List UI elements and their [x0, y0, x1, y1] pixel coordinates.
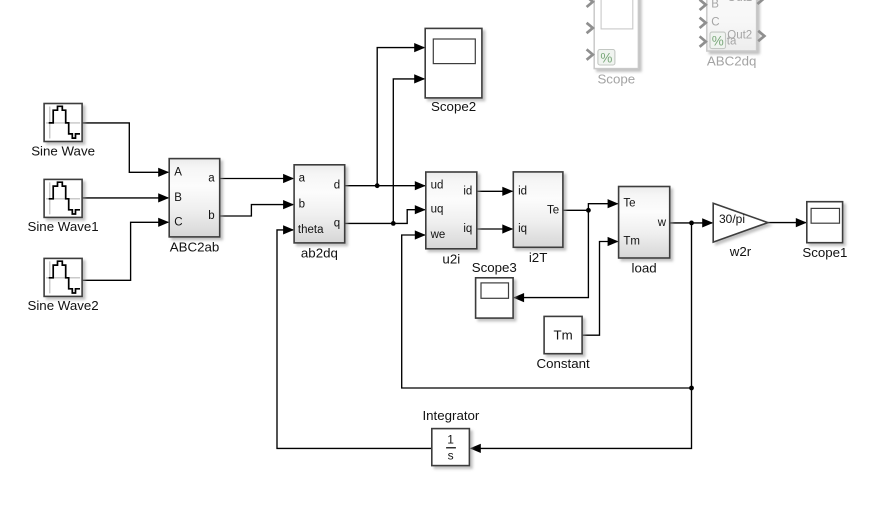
svg-text:u2i: u2i [442, 251, 460, 266]
svg-text:Constant: Constant [536, 356, 590, 371]
svg-text:30/pi: 30/pi [719, 212, 745, 226]
svg-text:w2r: w2r [729, 244, 752, 259]
svg-text:Tm: Tm [623, 236, 640, 248]
svg-text:Te: Te [623, 198, 635, 210]
svg-text:d: d [334, 180, 340, 192]
svg-text:%: % [712, 33, 724, 48]
svg-text:Sine Wave: Sine Wave [31, 144, 95, 159]
svg-text:theta: theta [298, 224, 324, 236]
svg-text:w: w [657, 217, 667, 229]
svg-text:A: A [174, 166, 182, 178]
svg-text:Sine Wave1: Sine Wave1 [27, 219, 98, 234]
svg-text:load: load [632, 261, 657, 276]
svg-text:ABC2dq: ABC2dq [707, 54, 757, 69]
svg-text:ab2dq: ab2dq [301, 245, 338, 260]
svg-text:id: id [518, 185, 527, 197]
svg-text:b: b [299, 199, 305, 211]
svg-text:s: s [448, 448, 454, 462]
svg-text:1: 1 [447, 433, 454, 447]
svg-text:B: B [711, 0, 719, 10]
svg-text:Out2: Out2 [727, 30, 752, 42]
svg-text:ud: ud [431, 180, 444, 192]
svg-text:Integrator: Integrator [422, 408, 479, 423]
svg-text:b: b [208, 210, 214, 222]
svg-text:iq: iq [463, 223, 472, 235]
svg-text:a: a [208, 173, 215, 185]
svg-text:C: C [174, 216, 182, 228]
svg-text:Scope2: Scope2 [431, 99, 476, 114]
svg-text:a: a [299, 173, 306, 185]
svg-text:Scope3: Scope3 [472, 260, 517, 275]
svg-text:Tm: Tm [553, 328, 572, 343]
svg-text:Out1: Out1 [727, 0, 752, 4]
svg-text:Te: Te [547, 204, 559, 216]
svg-text:Scope1: Scope1 [802, 245, 847, 260]
svg-text:C: C [711, 17, 719, 29]
svg-text:Scope: Scope [597, 72, 635, 87]
svg-text:%: % [600, 50, 612, 65]
svg-text:ABC2ab: ABC2ab [170, 240, 220, 255]
svg-text:we: we [430, 229, 446, 241]
svg-text:q: q [334, 217, 340, 229]
svg-text:id: id [463, 185, 472, 197]
svg-text:iq: iq [518, 223, 527, 235]
svg-text:i2T: i2T [529, 250, 547, 265]
svg-text:B: B [174, 192, 182, 204]
svg-text:uq: uq [431, 204, 444, 216]
svg-text:Sine Wave2: Sine Wave2 [27, 298, 98, 313]
